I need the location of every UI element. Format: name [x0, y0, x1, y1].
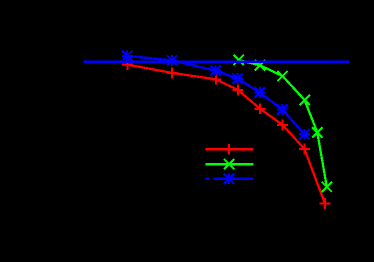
legend green entry: [206, 159, 254, 169]
blue series polyline: [127, 56, 304, 134]
blue series * markers: [122, 50, 310, 139]
green series polyline: [239, 60, 327, 187]
red series polyline: [127, 65, 325, 204]
legend red entry: [206, 144, 254, 155]
green series x markers: [233, 55, 332, 192]
legend blue entry (line has small gap near left): [206, 173, 254, 184]
blue reference horizontal line: [83, 61, 349, 63]
red series + markers: [122, 59, 330, 209]
